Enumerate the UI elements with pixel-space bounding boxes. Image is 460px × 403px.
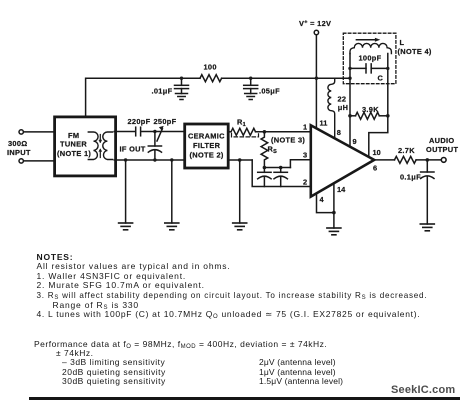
- node dot tank right/C: [386, 67, 389, 70]
- svg-text:3.9K: 3.9K: [362, 105, 379, 114]
- capacitor 0.1uF: [421, 160, 434, 224]
- node dot V+/rail: [315, 77, 318, 80]
- wire tuner top to rail: [86, 78, 180, 117]
- svg-text:OUTPUT: OUTPUT: [426, 145, 458, 154]
- wire input top: [24, 131, 54, 133]
- wire R1 to pin 1: [256, 131, 311, 133]
- rail right of 100: [222, 77, 350, 79]
- inductor L: [350, 43, 391, 53]
- capacitor 220pF: [136, 127, 141, 136]
- capacitor .01uF: [175, 78, 189, 93]
- wire filter to R1: [229, 131, 232, 133]
- wire to ground (op-amp): [333, 213, 335, 228]
- svg-text:300Ω: 300Ω: [8, 139, 28, 148]
- wire IF bottom: [114, 159, 183, 161]
- svg-text:0.1μF: 0.1μF: [400, 173, 421, 182]
- node dot bottom wire / ground stub 1: [124, 158, 127, 161]
- node dot 3.9K right: [386, 114, 390, 118]
- wire step to pin 3: [290, 160, 310, 168]
- rail to 100 resistor: [180, 77, 200, 79]
- svg-text:AUDIO: AUDIO: [429, 136, 454, 145]
- capacitor C (left, under RS): [258, 168, 271, 187]
- ground (.01uF): [176, 94, 188, 100]
- svg-text:FILTER: FILTER: [193, 141, 221, 150]
- svg-text:8: 8: [337, 128, 341, 137]
- ground (0.1uF): [420, 224, 434, 231]
- trimmer capacitor 250pF: [148, 126, 163, 160]
- wire filter bottom out: [229, 159, 253, 161]
- SeekIC.com watermark: [391, 384, 455, 396]
- resistor R1: [231, 128, 256, 135]
- resistor 2.7K: [395, 156, 417, 163]
- transformer secondary coil: [103, 132, 113, 160]
- svg-text:250pF: 250pF: [154, 117, 177, 126]
- wire 3.9K right lead: [379, 115, 388, 117]
- node dot bottom wire / ground stub 2: [170, 158, 173, 161]
- node dot RS bottom: [263, 166, 267, 170]
- transformer core: [99, 135, 101, 158]
- wire ground stub 2: [171, 160, 173, 223]
- transformer primary coil: [88, 132, 98, 160]
- svg-text:.01μF: .01μF: [152, 87, 173, 96]
- node dot rail/.05uF: [249, 77, 252, 80]
- wire pin 4: [317, 194, 334, 213]
- ceramic filter box: [185, 124, 229, 168]
- ground (IF bottom 2): [165, 223, 179, 230]
- svg-text:(NOTE 4): (NOTE 4): [398, 47, 432, 56]
- svg-text:R1: R1: [237, 118, 246, 129]
- svg-text:6: 6: [373, 164, 377, 173]
- svg-text:10: 10: [373, 148, 381, 157]
- wire pin 14: [333, 183, 335, 212]
- node dot tank left/C: [348, 67, 351, 70]
- wire V+ down to pin 11: [315, 35, 317, 129]
- tuning arrow: [356, 39, 376, 41]
- svg-text:14: 14: [337, 185, 346, 194]
- svg-text:(NOTE 3): (NOTE 3): [271, 136, 305, 145]
- svg-text:C: C: [378, 74, 384, 83]
- wire tank left down to pin 9: [349, 78, 351, 147]
- svg-text:.05μF: .05μF: [259, 87, 280, 96]
- svg-text:2.7K: 2.7K: [398, 146, 415, 155]
- wire 3.9K left lead: [350, 115, 356, 117]
- wire RS node to cap2 node: [264, 167, 290, 169]
- svg-text:CERAMIC: CERAMIC: [188, 132, 225, 141]
- output terminal: [441, 158, 446, 163]
- svg-text:RS: RS: [268, 145, 278, 156]
- svg-text:2: 2: [303, 178, 307, 187]
- wire IF top out: [114, 131, 134, 133]
- notes block: [37, 253, 428, 321]
- dashed box (NOTE 4): [343, 33, 396, 83]
- wire input bottom: [24, 160, 54, 162]
- node dot pin4/14: [332, 211, 336, 215]
- svg-text:μH: μH: [338, 103, 349, 112]
- capacitor .05uF: [244, 78, 258, 93]
- capacitor C (right): [274, 168, 287, 187]
- wire tank left: [349, 54, 351, 79]
- input terminal top: [19, 130, 23, 134]
- wire ground stub 3: [239, 160, 241, 223]
- svg-text:L: L: [400, 38, 405, 47]
- node dot 3.9K left: [348, 114, 352, 118]
- svg-text:IF OUT: IF OUT: [120, 145, 146, 154]
- node dot R1/RS: [263, 130, 267, 134]
- svg-text:4: 4: [320, 195, 325, 204]
- svg-text:11: 11: [320, 119, 328, 128]
- ground (filter bottom): [233, 223, 247, 230]
- ground (IF bottom 1): [119, 223, 133, 230]
- resistor RS: [261, 132, 268, 166]
- FM tuner box: [55, 117, 116, 176]
- resistor 3.9K: [356, 112, 380, 119]
- svg-text:(NOTE 2): (NOTE 2): [190, 151, 224, 160]
- node dot cap2 top: [279, 166, 283, 170]
- wire to pin 2 rail: [252, 160, 310, 187]
- wire output: [374, 159, 394, 161]
- wire feedback jog to output: [369, 116, 388, 157]
- wire 2.7K to output terminal: [416, 159, 441, 161]
- svg-text:100pF: 100pF: [359, 54, 382, 63]
- svg-text:(NOTE 1): (NOTE 1): [57, 149, 91, 158]
- inductor 22uH: [328, 78, 335, 138]
- svg-text:220pF: 220pF: [128, 117, 151, 126]
- svg-text:9: 9: [353, 137, 357, 146]
- performance block: [34, 340, 327, 387]
- wire tank right: [387, 54, 389, 116]
- svg-text:TUNER: TUNER: [60, 140, 87, 149]
- wire 220pF to filter: [142, 131, 184, 133]
- resistor 100: [200, 75, 222, 82]
- wire ground stub 1: [125, 160, 127, 223]
- node dot trimmer top: [153, 130, 156, 133]
- op-amp U1: [311, 125, 374, 196]
- node dot filter bottom: [238, 158, 242, 162]
- node dot trimmer bottom: [153, 158, 156, 161]
- node dot rail/.01uF: [180, 77, 183, 80]
- dashed outline under R1: [232, 134, 259, 137]
- ground (op-amp): [327, 228, 341, 235]
- svg-text:INPUT: INPUT: [7, 148, 31, 157]
- svg-text:1: 1: [303, 123, 307, 132]
- node dot output/0.1uF: [426, 158, 430, 162]
- bottom bar: [29, 397, 460, 400]
- capacitor C 100pF: [350, 64, 388, 73]
- input terminal bottom: [19, 159, 23, 163]
- ground (.05uF): [245, 94, 257, 100]
- svg-text:V+ = 12V: V+ = 12V: [299, 19, 331, 28]
- V+ terminal: [314, 30, 318, 34]
- svg-text:3: 3: [303, 151, 307, 160]
- node dot rail/tank: [348, 77, 351, 80]
- svg-text:100: 100: [204, 63, 217, 72]
